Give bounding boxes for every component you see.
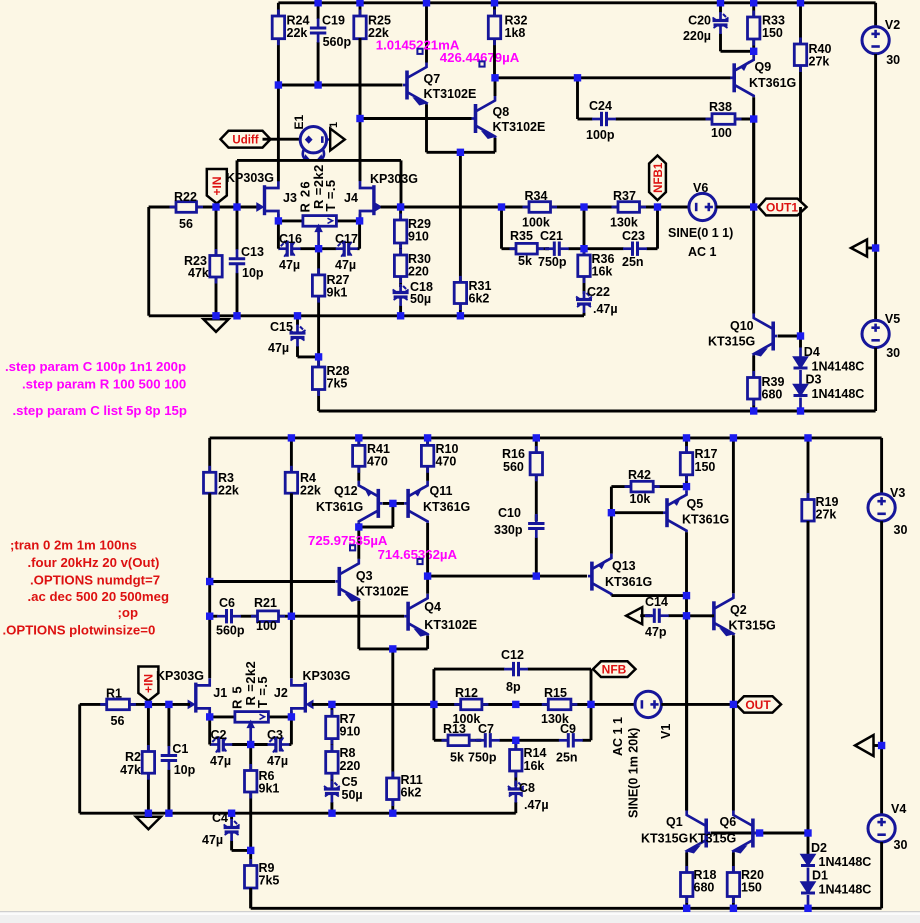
svg-text:NFB1: NFB1 (653, 162, 665, 193)
svg-text:R12: R12 (455, 686, 478, 700)
svg-text:50µ: 50µ (342, 788, 363, 802)
resistor R25 (354, 3, 391, 119)
svg-text:1N4148C: 1N4148C (819, 883, 872, 897)
svg-text:47µ: 47µ (279, 258, 300, 272)
wire R42 left elbow (610, 487, 613, 513)
wire +IN rail (216, 206, 259, 209)
svg-text:AC 1 1: AC 1 1 (611, 717, 625, 756)
resistor R31 (454, 276, 491, 316)
svg-text:SINE(0 1m 20k): SINE(0 1m 20k) (627, 728, 641, 818)
resistor R22 (149, 190, 216, 231)
resistor R42 (611, 468, 686, 506)
svg-text:C12: C12 (501, 648, 524, 662)
svg-text:680: 680 (694, 881, 715, 895)
svg-text:C13: C13 (241, 245, 264, 259)
svg-text:100k: 100k (522, 216, 550, 230)
svg-text:100: 100 (711, 126, 732, 140)
svg-text:OUT: OUT (745, 698, 771, 712)
svg-text:KT361G: KT361G (605, 575, 652, 589)
svg-text:E1: E1 (292, 114, 306, 129)
resistor R10 (421, 438, 458, 481)
svg-text:AC 1: AC 1 (688, 245, 717, 259)
svg-text:C22: C22 (587, 285, 610, 299)
svg-text:30: 30 (894, 523, 908, 537)
capacitor C16 (278, 221, 318, 272)
capacitor C19 (310, 3, 352, 85)
svg-text:22k: 22k (287, 26, 308, 40)
svg-text:25n: 25n (556, 751, 578, 765)
svg-text:C7: C7 (478, 722, 494, 736)
svg-text:Udiff: Udiff (232, 135, 258, 147)
wire feedback loop verticals (434, 669, 591, 740)
svg-text:Q3: Q3 (356, 569, 373, 583)
svg-text:KT3102E: KT3102E (493, 120, 546, 134)
svg-text:J3: J3 (283, 191, 297, 205)
svg-text:KP303G: KP303G (303, 669, 351, 683)
resistor R32 (488, 3, 527, 78)
diode D3 (794, 370, 865, 411)
svg-text:R13: R13 (443, 722, 466, 736)
flag OUT1 (759, 199, 807, 216)
resistor R2 (120, 704, 154, 813)
svg-text:C23: C23 (622, 229, 645, 243)
svg-text:T =.5: T =.5 (255, 676, 270, 708)
svg-text:220: 220 (340, 759, 361, 773)
wire mid rail bottom circuit (332, 703, 591, 706)
jfet J4 (344, 181, 382, 221)
current label 725uA (308, 533, 388, 550)
flag +IN bottom (138, 667, 158, 702)
wire mid rail right (401, 206, 689, 209)
resistor R20 (727, 866, 764, 908)
resistor R4 (285, 438, 321, 616)
svg-text:Q1: Q1 (666, 815, 683, 829)
flag NFB (593, 661, 636, 677)
wire J4 gate rail (381, 206, 402, 209)
resistor R13 (434, 722, 482, 765)
resistor R40 (794, 3, 831, 207)
wire Q7 Q8 emitter rail (427, 152, 496, 282)
resistor R24 (272, 3, 309, 85)
wire ground rail bottom (80, 812, 516, 815)
svg-text:1N4148C: 1N4148C (812, 360, 865, 374)
svg-text:KT315G: KT315G (729, 619, 776, 633)
svg-text:27k: 27k (816, 508, 837, 522)
svg-text:J4: J4 (344, 191, 358, 205)
resistor R28 (312, 357, 349, 411)
svg-text:C16: C16 (279, 232, 302, 246)
svg-text:SINE(0 1 1): SINE(0 1 1) (668, 226, 733, 240)
svg-text:KT315G: KT315G (641, 832, 688, 846)
svg-text:Q11: Q11 (430, 484, 453, 498)
svg-text:5k: 5k (450, 751, 464, 765)
svg-text:D4: D4 (804, 345, 820, 359)
capacitor C23 (584, 207, 658, 269)
svg-text:10p: 10p (242, 266, 264, 280)
junction dots bottom circuit (145, 434, 886, 912)
svg-text:725.97535µA: 725.97535µA (308, 533, 388, 548)
svg-text:30: 30 (886, 53, 900, 67)
svg-text:10k: 10k (630, 492, 651, 506)
voltage source V2 (862, 18, 900, 320)
capacitor C20 (683, 3, 754, 52)
capacitor C9 (516, 722, 591, 765)
resistor R19 (802, 438, 839, 833)
svg-text:R16: R16 (502, 447, 525, 461)
svg-text:9k1: 9k1 (259, 782, 280, 796)
svg-text:750p: 750p (538, 255, 567, 269)
svg-text:16k: 16k (524, 759, 545, 773)
svg-text:R21: R21 (254, 596, 277, 610)
svg-text:+IN: +IN (142, 674, 156, 693)
resistor R37 (584, 189, 658, 230)
transistor Q8 (472, 78, 546, 153)
svg-text:KT361G: KT361G (423, 500, 470, 514)
capacitor C14 (645, 595, 686, 639)
flag OUT (736, 696, 781, 712)
capacitor C15 (268, 316, 319, 357)
svg-text:J1: J1 (213, 686, 227, 700)
transistor Q7 (403, 3, 476, 153)
svg-text:R42: R42 (628, 468, 651, 482)
capacitor C3 (251, 717, 292, 768)
capacitor C21 (538, 229, 584, 269)
wire R19 column down (807, 521, 810, 833)
svg-text:R14: R14 (524, 746, 547, 760)
svg-text:D1: D1 (812, 869, 828, 883)
svg-text:C6: C6 (219, 596, 235, 610)
resistor R38 (706, 100, 754, 140)
transistor Q12 (316, 481, 382, 523)
diode D4 (794, 345, 865, 374)
jfet J2 (274, 678, 332, 718)
svg-text:30: 30 (886, 346, 900, 360)
svg-text:C20: C20 (688, 14, 711, 28)
wire Q9 collector column (752, 119, 755, 314)
svg-text:D2: D2 (811, 841, 827, 855)
svg-text:R2: R2 (125, 750, 141, 764)
voltage source V4 (868, 802, 907, 908)
svg-text:6k2: 6k2 (469, 292, 490, 306)
svg-text:30: 30 (894, 838, 908, 852)
transistor Q1 (641, 616, 757, 866)
resistor R35 (502, 229, 550, 268)
wire Q7 base rail (278, 84, 402, 87)
svg-text:C3: C3 (267, 728, 283, 742)
svg-text:47µ: 47µ (335, 258, 356, 272)
transistor Q4 (404, 553, 477, 649)
svg-text:56: 56 (111, 714, 125, 728)
resistor R3 (204, 466, 239, 582)
svg-text:C8: C8 (519, 781, 535, 795)
svg-text:R37: R37 (613, 189, 636, 203)
wire Q11 collector to Q4 (426, 523, 429, 553)
wire R4 column to J2 (290, 493, 293, 678)
svg-text:Q4: Q4 (424, 600, 441, 614)
resistor R8 (326, 745, 361, 788)
svg-text:150: 150 (741, 881, 762, 895)
svg-text:9k1: 9k1 (327, 286, 348, 300)
svg-text:Q7: Q7 (424, 72, 441, 86)
transistor Q2 (687, 438, 776, 705)
svg-text:KP303G: KP303G (370, 172, 418, 186)
svg-text:J2: J2 (274, 686, 288, 700)
svg-text:R1: R1 (106, 687, 122, 701)
capacitor C24 (578, 99, 713, 142)
svg-text:100p: 100p (586, 128, 615, 142)
svg-text:5k: 5k (518, 254, 532, 268)
svg-text:OUT1: OUT1 (766, 200, 798, 214)
resistor R29 (394, 207, 431, 250)
wire left input loop (149, 207, 176, 316)
svg-text:C15: C15 (270, 320, 293, 334)
svg-text:.four 20kHz 20 v(Out): .four 20kHz 20 v(Out) (28, 555, 160, 570)
potentiometer R26 (278, 164, 359, 248)
wire top supply rail (278, 3, 875, 27)
svg-text:C10: C10 (498, 506, 521, 520)
capacitor C2 (210, 717, 251, 768)
resistor R12 (434, 686, 516, 726)
svg-text:22k: 22k (218, 484, 239, 498)
svg-text:.47µ: .47µ (593, 302, 618, 316)
resistor R39 (748, 371, 785, 411)
flag NFB1 (649, 156, 666, 201)
svg-text:47p: 47p (645, 625, 667, 639)
port arrow bottom (855, 735, 882, 756)
svg-text:1: 1 (328, 122, 340, 128)
svg-text:.step param R 100 500 100: .step param R 100 500 100 (22, 377, 186, 392)
svg-text:Q2: Q2 (730, 603, 747, 617)
svg-text:47µ: 47µ (210, 754, 231, 768)
capacitor C10 (494, 506, 545, 576)
resistor R34 (502, 189, 585, 230)
svg-text:22k: 22k (300, 484, 321, 498)
resistor R15 (516, 686, 591, 726)
svg-text:D3: D3 (806, 373, 822, 387)
svg-text:R22: R22 (174, 190, 197, 204)
resistor R7 (326, 704, 361, 745)
resistor R27 (312, 249, 349, 357)
transistor Q5 (611, 490, 729, 595)
svg-text:V1: V1 (659, 724, 673, 739)
svg-text:KT361G: KT361G (316, 500, 363, 514)
svg-text:7k5: 7k5 (327, 377, 348, 391)
svg-text:150: 150 (695, 460, 716, 474)
svg-text:NFB: NFB (602, 662, 627, 676)
wire fb loop left top (500, 207, 503, 249)
port arrow top (851, 240, 876, 257)
diode D1 (801, 868, 871, 909)
svg-text:KT315G: KT315G (708, 335, 755, 349)
capacitor C4 (202, 811, 251, 850)
flag +IN top (207, 169, 227, 204)
wire ground rail top (149, 314, 584, 317)
svg-text:R34: R34 (525, 189, 548, 203)
diode D2 (801, 833, 871, 869)
svg-text:150: 150 (762, 26, 783, 40)
wire left input loop bottom (80, 704, 169, 813)
svg-text:7k5: 7k5 (259, 874, 280, 888)
svg-text:Q6: Q6 (720, 815, 737, 829)
svg-text:KT315G: KT315G (689, 832, 736, 846)
svg-text:.ac dec 500 20 500meg: .ac dec 500 20 500meg (28, 589, 170, 604)
resistor R6 (245, 745, 280, 851)
svg-text:47µ: 47µ (267, 754, 288, 768)
svg-text:;op: ;op (118, 605, 139, 620)
svg-text:27k: 27k (809, 55, 830, 69)
svg-text:.OPTIONS plotwinsize=0: .OPTIONS plotwinsize=0 (3, 623, 156, 638)
svg-text:470: 470 (367, 455, 388, 469)
resistor R9 (245, 850, 280, 908)
svg-text:KT3102E: KT3102E (424, 618, 477, 632)
svg-text:Q12: Q12 (334, 484, 358, 498)
svg-text:KT361G: KT361G (682, 513, 729, 527)
svg-text:C24: C24 (589, 99, 612, 113)
resistor R21 (251, 596, 291, 633)
svg-text:560p: 560p (216, 624, 245, 638)
ground symbol bottom (136, 817, 161, 830)
resistor R16 (502, 438, 543, 521)
resistor R17 (680, 438, 717, 487)
svg-text:C21: C21 (540, 229, 563, 243)
wire Q12 collector to Q3 (357, 523, 360, 559)
resistor R30 (394, 248, 431, 287)
ground symbol top (204, 319, 229, 332)
resistor R23 (184, 207, 222, 316)
svg-text:R35: R35 (510, 229, 533, 243)
svg-text:V6: V6 (693, 181, 708, 195)
capacitor C6 (210, 596, 252, 638)
transistor Q11 (404, 481, 470, 523)
svg-text:V2: V2 (885, 18, 900, 32)
potentiometer R5 (210, 661, 292, 745)
wire Q3 Q4 emitter rail (359, 649, 428, 778)
wire R25 column to J4 (359, 38, 362, 181)
junction dots top circuit (212, 0, 879, 415)
svg-text:+IN: +IN (210, 176, 224, 195)
resistor R41 (353, 438, 390, 481)
resistor R14 (510, 740, 547, 786)
current label 1.0145221mA (376, 38, 460, 54)
voltage source V5 (862, 312, 900, 411)
port arrow C14 (626, 607, 652, 624)
wire bottom rail top circuit (319, 410, 876, 413)
flag Udiff (221, 131, 279, 148)
svg-text:47µ: 47µ (202, 833, 223, 847)
svg-text:47µ: 47µ (268, 341, 289, 355)
wire fb mid vertical (583, 207, 586, 249)
svg-text:KT3102E: KT3102E (424, 87, 477, 101)
transistor Q13 (588, 513, 687, 596)
voltage source V6 (668, 181, 754, 259)
svg-text:10p: 10p (174, 763, 196, 777)
svg-text:100: 100 (256, 619, 277, 633)
svg-text:1k8: 1k8 (505, 26, 526, 40)
resistor R11 (387, 772, 423, 814)
resistor R18 (681, 866, 717, 908)
svg-text:.47µ: .47µ (524, 798, 549, 812)
svg-text:Q9: Q9 (755, 60, 772, 74)
wire Q13 base rail (428, 575, 587, 578)
wire R40 column down (799, 207, 802, 348)
svg-text:47k: 47k (188, 266, 209, 280)
svg-text:V5: V5 (885, 312, 900, 326)
capacitor C17 (319, 221, 360, 272)
resistor R36 (578, 249, 615, 295)
capacitor C5 (324, 775, 363, 813)
wire Q9 base rail (495, 76, 731, 79)
svg-text:220µ: 220µ (683, 29, 711, 43)
svg-text:R15: R15 (544, 686, 567, 700)
svg-text:V4: V4 (891, 802, 906, 816)
wire Udiff vertical (277, 85, 280, 181)
svg-text:680: 680 (762, 388, 783, 402)
svg-text:KP303G: KP303G (156, 669, 204, 683)
jfet J3 (257, 181, 297, 221)
svg-text:25n: 25n (622, 255, 644, 269)
svg-text:560: 560 (503, 460, 524, 474)
resistor R33 (748, 3, 785, 52)
svg-text:750p: 750p (468, 751, 497, 765)
svg-text:C9: C9 (560, 722, 576, 736)
jfet J1 (169, 678, 227, 718)
wire Q3 base rail (210, 580, 335, 583)
svg-text:C17: C17 (335, 232, 358, 246)
capacitor C18 (393, 280, 433, 316)
svg-text:8p: 8p (506, 680, 521, 694)
svg-text:C5: C5 (342, 775, 358, 789)
resistor R1 (100, 687, 136, 729)
svg-text:;tran 0 2m 1m 100ns: ;tran 0 2m 1m 100ns (10, 538, 137, 553)
current label 714uA (378, 547, 458, 564)
svg-text:.step param C list 5p 8p 15p: .step param C list 5p 8p 15p (13, 403, 187, 418)
capacitor C22 (576, 285, 618, 316)
svg-text:1N4148C: 1N4148C (819, 855, 872, 869)
svg-text:C2: C2 (211, 728, 227, 742)
wire E1 bottom rail (237, 160, 401, 207)
svg-text:910: 910 (408, 230, 429, 244)
svg-text:910: 910 (340, 725, 361, 739)
svg-text:1N4148C: 1N4148C (812, 387, 865, 401)
svg-text:220: 220 (408, 265, 429, 279)
transistor Q10 (708, 314, 801, 377)
transistor Q6 (720, 704, 809, 866)
svg-text:Q10: Q10 (730, 319, 754, 333)
svg-text:.OPTIONS numdgt=7: .OPTIONS numdgt=7 (30, 573, 160, 588)
current label 426.44679uA (440, 50, 520, 67)
transistor Q9 (730, 51, 796, 207)
svg-text:C19: C19 (322, 14, 345, 28)
voltage source V1 (591, 691, 733, 818)
svg-text:Q8: Q8 (493, 105, 510, 119)
svg-text:47k: 47k (120, 763, 141, 777)
svg-text:470: 470 (436, 455, 457, 469)
svg-text:Q13: Q13 (612, 559, 636, 573)
transistor Q3 (335, 559, 408, 649)
svg-text:56: 56 (179, 217, 193, 231)
svg-text:Q5: Q5 (687, 497, 704, 511)
capacitor C13 (229, 207, 264, 316)
capacitor C8 (508, 781, 549, 814)
wire R3 column to J1 (208, 493, 211, 678)
svg-text:C4: C4 (212, 811, 228, 825)
svg-text:KT3102E: KT3102E (356, 585, 409, 599)
svg-text:.step param C 100p 1n1 200p: .step param C 100p 1n1 200p (5, 359, 186, 374)
svg-text:560p: 560p (323, 35, 352, 49)
wire Q5 collector column (685, 596, 688, 811)
svg-text:R8: R8 (340, 746, 356, 760)
wire top rail bottom circuit (210, 438, 882, 494)
